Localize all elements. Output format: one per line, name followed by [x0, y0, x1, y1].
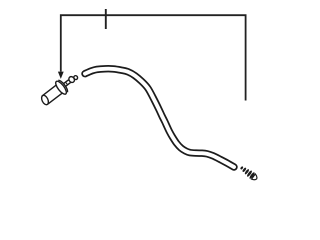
check valve (nozzle connector) [37, 69, 81, 108]
valve ball barb [68, 76, 76, 84]
leader bracket [61, 15, 246, 100]
valve stem tick [65, 82, 68, 85]
tick mark on bracket [105, 9, 107, 29]
valve end cap [40, 94, 50, 106]
barb rib 2 [242, 167, 247, 172]
barb fitting (loose end connector) [239, 164, 259, 182]
valve tip nub [73, 75, 78, 80]
valve flange rim [58, 79, 69, 92]
valve flange [56, 78, 69, 93]
barb rib 4 [246, 170, 252, 177]
hose (inner white) [85, 69, 234, 167]
arrowhead [58, 72, 64, 79]
valve body cylinder [42, 85, 63, 104]
valve stem [62, 80, 71, 88]
barb rib 3 [244, 169, 250, 175]
barb tip cone [252, 174, 259, 182]
barb rib 5 [249, 172, 256, 180]
hose (outer black) [85, 69, 234, 167]
barb rib 1 [240, 166, 244, 170]
